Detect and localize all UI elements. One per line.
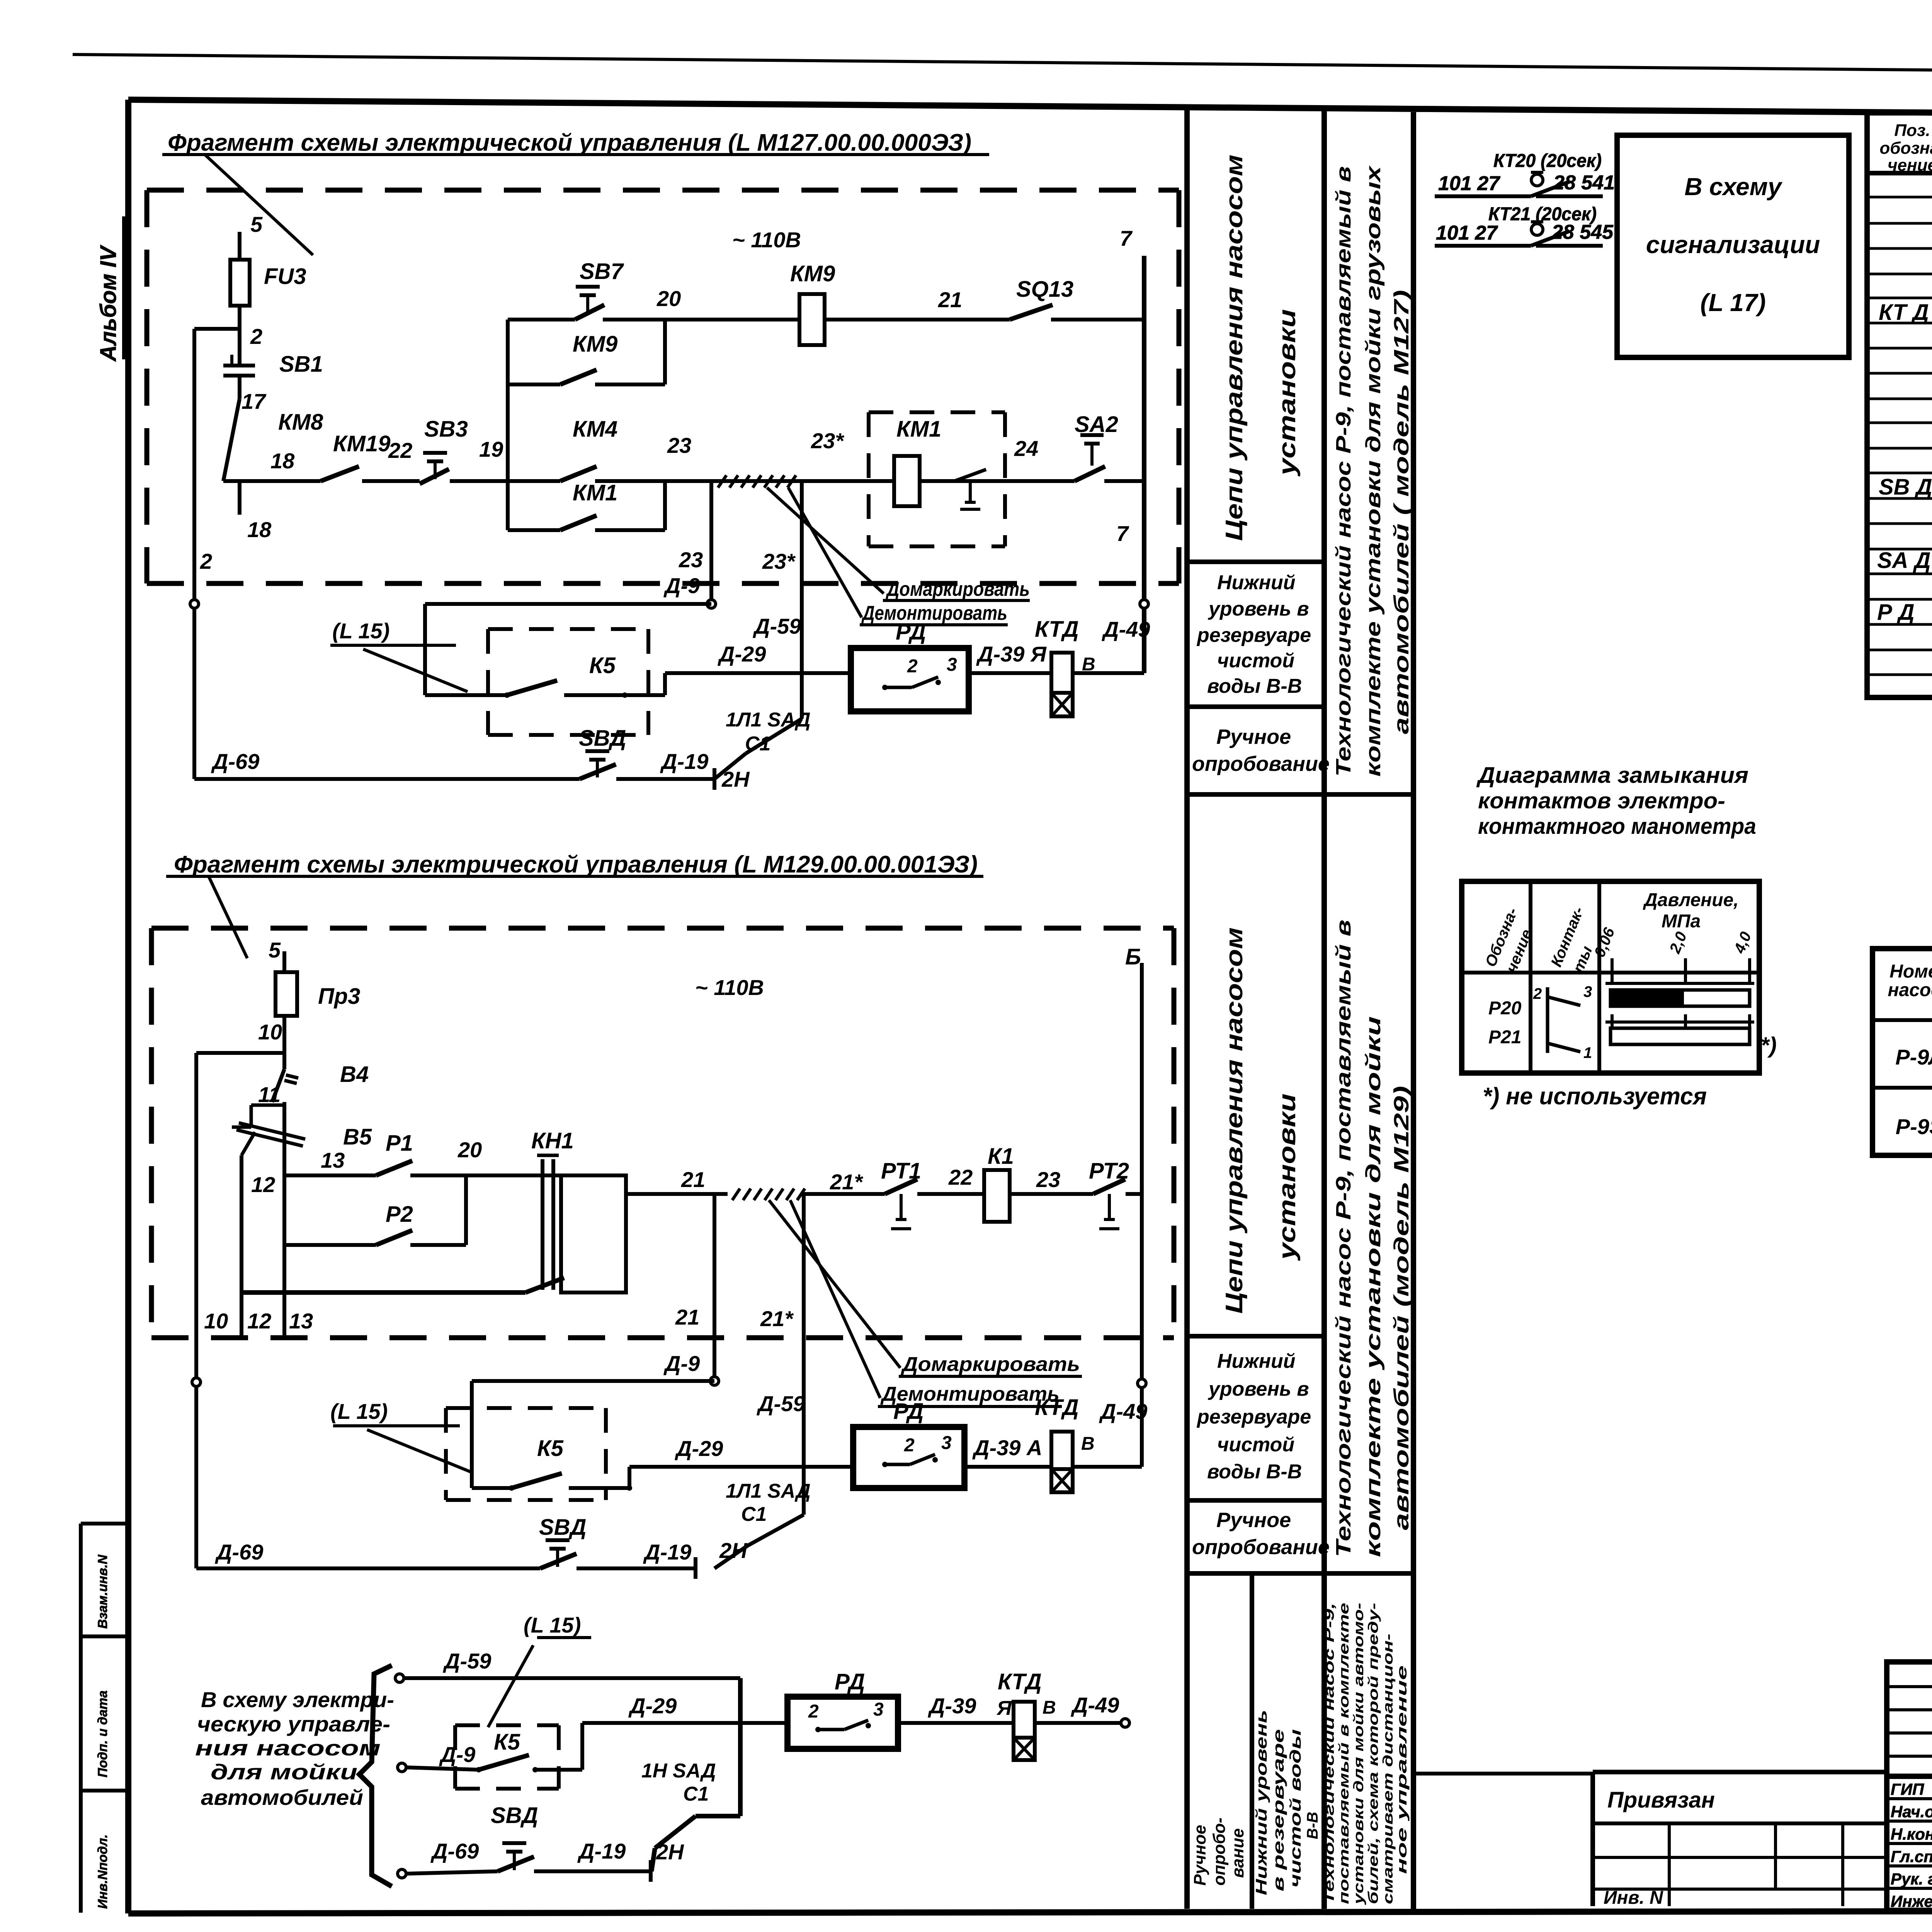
svg-text:2: 2 [907, 656, 918, 677]
svg-text:5: 5 [269, 938, 281, 962]
svg-text:~ 110В: ~ 110В [732, 228, 801, 252]
svg-text:28 545: 28 545 [1551, 221, 1614, 243]
svg-text:Ручное: Ручное [1190, 1825, 1209, 1886]
svg-text:КМ8: КМ8 [278, 410, 323, 435]
svg-text:(L 17): (L 17) [1700, 289, 1766, 316]
svg-text:Д-9: Д-9 [663, 573, 700, 598]
svg-text:SQ13: SQ13 [1016, 277, 1073, 302]
svg-text:опробование: опробование [1192, 1536, 1330, 1559]
svg-text:РД: РД [835, 1669, 865, 1694]
svg-text:(L 15): (L 15) [330, 1399, 388, 1423]
svg-text:22: 22 [948, 1165, 973, 1189]
svg-text:С1: С1 [683, 1783, 709, 1805]
svg-text:С1: С1 [745, 733, 770, 755]
svg-text:Д-49: Д-49 [1071, 1693, 1119, 1717]
svg-text:Технологический насос Р-9,: Технологический насос Р-9, [1321, 1603, 1337, 1904]
svg-text:контактного манометра: контактного манометра [1478, 814, 1756, 839]
svg-text:Р-9Л: Р-9Л [1895, 1045, 1932, 1069]
svg-text:Д-59: Д-59 [443, 1649, 491, 1673]
svg-text:РТ2: РТ2 [1089, 1158, 1129, 1184]
svg-text:КМ4: КМ4 [573, 417, 617, 442]
svg-text:Пр3: Пр3 [318, 984, 360, 1009]
svg-text:КМ1: КМ1 [896, 417, 941, 442]
svg-text:Подп. и дата: Подп. и дата [95, 1690, 110, 1777]
svg-text:*): *) [1760, 1033, 1777, 1058]
svg-text:Д-39 А: Д-39 А [972, 1435, 1042, 1460]
svg-text:Фрагмент схемы электрической: Фрагмент схемы электрической управления … [168, 129, 971, 156]
svg-text:К1: К1 [988, 1144, 1014, 1169]
svg-text:7: 7 [1116, 521, 1129, 546]
svg-text:ГИП: ГИП [1891, 1780, 1924, 1798]
svg-text:К5: К5 [494, 1730, 520, 1755]
svg-text:Д-19: Д-19 [643, 1540, 691, 1564]
svg-text:автомобилей ( модель М127): автомобилей ( модель М127) [1390, 290, 1413, 734]
svg-text:для мойки: для мойки [211, 1760, 357, 1784]
svg-text:10: 10 [258, 1020, 282, 1044]
svg-text:101 27: 101 27 [1438, 172, 1500, 195]
svg-text:чистой воды: чистой воды [1287, 1729, 1304, 1888]
svg-text:РТ1: РТ1 [881, 1158, 921, 1184]
svg-text:Демонтировать: Демонтировать [861, 602, 1007, 624]
svg-text:К5: К5 [589, 653, 616, 678]
svg-text:Цепи управления насосом: Цепи управления насосом [1221, 155, 1248, 541]
svg-text:2: 2 [808, 1701, 819, 1722]
svg-text:2: 2 [904, 1435, 915, 1456]
svg-text:13: 13 [289, 1309, 313, 1333]
svg-text:установки для мойки автомо-: установки для мойки автомо- [1350, 1603, 1366, 1905]
svg-text:20: 20 [457, 1138, 482, 1162]
svg-text:КТ20 (20сек): КТ20 (20сек) [1493, 151, 1602, 171]
svg-text:SВ Д: SВ Д [1879, 474, 1932, 500]
svg-text:~ 110В: ~ 110В [695, 975, 764, 1000]
svg-text:Альбом IV: Альбом IV [96, 245, 121, 362]
svg-text:Нижний: Нижний [1217, 571, 1296, 594]
svg-text:101 27: 101 27 [1436, 222, 1498, 244]
svg-text:чистой: чистой [1217, 1434, 1294, 1456]
svg-text:установки: установки [1274, 1094, 1301, 1261]
svg-text:18: 18 [247, 517, 272, 542]
svg-text:3: 3 [941, 1433, 952, 1453]
svg-text:опробование: опробование [1192, 752, 1330, 776]
svg-text:SА Д: SА Д [1877, 548, 1931, 573]
svg-text:17: 17 [241, 389, 267, 413]
svg-text:Ручное: Ручное [1216, 725, 1291, 748]
svg-text:В схему: В схему [1684, 173, 1783, 201]
svg-text:Рук. гр.: Рук. гр. [1891, 1870, 1932, 1888]
svg-text:Давление,: Давление, [1643, 890, 1739, 910]
svg-text:*) не используется: *) не используется [1483, 1083, 1707, 1110]
svg-text:комплекте установки для: комплекте установки для мойки [1362, 1016, 1385, 1557]
svg-text:13: 13 [321, 1148, 345, 1172]
svg-text:КМ19: КМ19 [333, 431, 390, 456]
svg-text:Фрагмент схемы электрическо: Фрагмент схемы электрической управления … [174, 851, 978, 878]
svg-text:Технологический насос Р-9,: Технологический насос Р-9, поставляемый … [1332, 166, 1355, 777]
svg-text:КТД: КТД [1035, 1395, 1079, 1420]
svg-text:Поз.: Поз. [1894, 121, 1930, 140]
svg-text:КТД: КТД [1035, 617, 1079, 642]
svg-text:обозна-: обозна- [1879, 139, 1932, 158]
svg-text:чистой: чистой [1217, 650, 1294, 672]
svg-text:Домаркировать: Домаркировать [901, 1353, 1080, 1376]
svg-text:насоса: насоса [1888, 980, 1932, 1000]
svg-text:Д-29: Д-29 [675, 1436, 723, 1461]
svg-text:1Н SАД: 1Н SАД [641, 1760, 716, 1782]
svg-text:Р Д: Р Д [1877, 600, 1915, 625]
svg-text:Б: Б [1125, 944, 1141, 969]
svg-text:Р2: Р2 [386, 1202, 413, 1227]
svg-text:2Н: 2Н [721, 767, 750, 791]
svg-text:24: 24 [1014, 436, 1038, 461]
svg-text:3: 3 [1583, 983, 1592, 1000]
svg-text:(L 15): (L 15) [332, 619, 389, 643]
svg-text:В схему электри-: В схему электри- [201, 1687, 394, 1712]
svg-text:Ручное: Ручное [1216, 1509, 1291, 1532]
svg-text:Д-69: Д-69 [430, 1839, 479, 1863]
svg-text:SВД: SВД [491, 1803, 538, 1828]
svg-text:23: 23 [1036, 1167, 1060, 1192]
svg-text:Д-49: Д-49 [1102, 617, 1150, 641]
svg-text:Р20: Р20 [1488, 998, 1522, 1019]
svg-text:FU3: FU3 [264, 264, 306, 289]
svg-text:Я: Я [996, 1697, 1012, 1719]
svg-text:вание: вание [1228, 1828, 1247, 1878]
svg-text:комплекте установки для м: комплекте установки для мойки грузовых [1362, 165, 1385, 777]
svg-text:Р1: Р1 [386, 1131, 413, 1156]
svg-text:Инженер: Инженер [1891, 1892, 1932, 1910]
svg-text:РД: РД [893, 1399, 923, 1424]
svg-text:1Л1 SАД: 1Л1 SАД [726, 709, 811, 731]
svg-text:Р-9S: Р-9S [1896, 1114, 1932, 1139]
svg-text:Д-39: Д-39 [928, 1694, 976, 1718]
svg-text:МПа: МПа [1662, 911, 1701, 932]
svg-text:ное управление: ное управление [1394, 1665, 1410, 1874]
svg-text:КТ Д: КТ Д [1879, 300, 1929, 325]
svg-text:С1: С1 [741, 1503, 767, 1526]
svg-text:2Н: 2Н [656, 1840, 684, 1864]
svg-text:18: 18 [270, 449, 295, 473]
svg-text:20: 20 [656, 286, 681, 311]
svg-text:Диаграмма замыкания: Диаграмма замыкания [1476, 763, 1748, 788]
svg-text:уровень в: уровень в [1207, 598, 1309, 620]
svg-text:КТД: КТД [998, 1669, 1042, 1694]
svg-text:опробо-: опробо- [1210, 1818, 1229, 1886]
svg-text:В: В [1043, 1697, 1056, 1718]
svg-text:21: 21 [938, 287, 962, 312]
svg-text:23*: 23* [762, 549, 796, 573]
svg-text:контактов электро-: контактов электро- [1478, 788, 1725, 813]
svg-text:Домаркировать: Домаркировать [886, 578, 1030, 600]
svg-text:21*: 21* [760, 1306, 794, 1331]
svg-text:SВД: SВД [579, 726, 626, 751]
svg-text:SВД: SВД [539, 1515, 586, 1540]
svg-text:28 541: 28 541 [1553, 172, 1615, 194]
svg-text:12: 12 [247, 1309, 271, 1333]
svg-text:Технологический насос Р-9,: Технологический насос Р-9, поставляемый … [1332, 920, 1355, 1557]
svg-text:ния насосом: ния насосом [195, 1736, 381, 1760]
svg-text:Д-69: Д-69 [211, 749, 259, 774]
svg-text:21: 21 [681, 1167, 705, 1192]
svg-text:Д-49: Д-49 [1099, 1399, 1147, 1423]
svg-text:резервуаре: резервуаре [1196, 1406, 1311, 1428]
svg-text:резервуаре: резервуаре [1196, 624, 1311, 646]
svg-text:Д-29: Д-29 [628, 1694, 677, 1718]
svg-text:2: 2 [250, 324, 262, 349]
svg-text:В5: В5 [343, 1124, 372, 1150]
svg-text:уровень в: уровень в [1207, 1378, 1309, 1400]
svg-text:КМ9: КМ9 [790, 261, 835, 286]
svg-text:КН1: КН1 [531, 1128, 574, 1153]
svg-text:SВ1: SВ1 [279, 352, 323, 377]
svg-text:сигнализации: сигнализации [1646, 231, 1820, 259]
svg-text:Привязан: Привязан [1607, 1787, 1715, 1813]
svg-text:В: В [1082, 654, 1095, 675]
svg-text:Н.контр.: Н.контр. [1891, 1825, 1932, 1843]
svg-text:В-В: В-В [1304, 1812, 1321, 1839]
svg-text:Д-29: Д-29 [718, 642, 766, 666]
svg-text:воды В-В: воды В-В [1207, 1461, 1302, 1483]
svg-text:2: 2 [200, 549, 212, 573]
svg-text:Нач.отд.: Нач.отд. [1891, 1803, 1932, 1821]
svg-text:7: 7 [1120, 226, 1133, 250]
svg-text:3: 3 [873, 1699, 884, 1720]
svg-text:1: 1 [1583, 1044, 1592, 1061]
svg-text:Д-19: Д-19 [660, 749, 708, 774]
svg-text:21: 21 [675, 1305, 699, 1329]
svg-text:Нижний: Нижний [1217, 1350, 1296, 1372]
svg-text:10: 10 [204, 1309, 228, 1333]
svg-text:Д-19: Д-19 [577, 1839, 626, 1863]
svg-text:Цепи управления насосом: Цепи управления насосом [1221, 927, 1248, 1314]
svg-text:РД: РД [896, 619, 926, 645]
svg-text:12: 12 [251, 1172, 275, 1197]
svg-text:23: 23 [679, 548, 703, 572]
svg-text:Инв. N: Инв. N [1604, 1888, 1663, 1908]
svg-text:2: 2 [1533, 985, 1542, 1002]
svg-text:В: В [1081, 1434, 1095, 1454]
svg-text:билей, схема которой преду-: билей, схема которой преду- [1365, 1603, 1381, 1904]
svg-text:КМ1: КМ1 [573, 480, 617, 505]
svg-text:Гл.спец: Гл.спец [1891, 1847, 1932, 1866]
svg-text:SА2: SА2 [1075, 412, 1118, 437]
svg-text:ческую управле-: ческую управле- [197, 1712, 390, 1736]
svg-text:1Л1 SАД: 1Л1 SАД [726, 1480, 811, 1502]
svg-text:Номер: Номер [1889, 961, 1932, 982]
svg-text:22: 22 [388, 438, 412, 463]
svg-text:Д-9: Д-9 [439, 1742, 475, 1767]
svg-text:21*: 21* [830, 1170, 863, 1194]
svg-text:19: 19 [479, 437, 503, 461]
svg-text:автомобилей (модель М129): автомобилей (модель М129) [1390, 1086, 1413, 1530]
svg-text:SВ3: SВ3 [424, 417, 468, 442]
svg-text:2Н: 2Н [719, 1538, 748, 1563]
svg-text:Инв.Nподл.: Инв.Nподл. [95, 1834, 110, 1909]
svg-text:КМ9: КМ9 [573, 332, 617, 357]
svg-text:Д-59: Д-59 [757, 1391, 805, 1416]
svg-text:Д-59: Д-59 [753, 614, 801, 638]
svg-text:установки: установки [1274, 309, 1301, 477]
svg-text:23: 23 [667, 433, 691, 457]
svg-text:автомобилей: автомобилей [201, 1785, 363, 1810]
svg-text:3: 3 [947, 655, 957, 675]
svg-text:чение: чение [1888, 156, 1932, 175]
svg-text:Взам.инв.N: Взам.инв.N [95, 1554, 110, 1629]
svg-text:5: 5 [250, 212, 263, 236]
svg-text:11: 11 [258, 1082, 281, 1107]
svg-text:Д-9: Д-9 [663, 1351, 700, 1376]
svg-text:К5: К5 [537, 1436, 564, 1461]
svg-text:воды В-В: воды В-В [1207, 675, 1302, 697]
svg-text:сматривает дистанцион-: сматривает дистанцион- [1380, 1634, 1396, 1904]
svg-text:SВ7: SВ7 [580, 259, 624, 284]
svg-text:в резервуаре: в резервуаре [1270, 1729, 1287, 1891]
svg-text:В4: В4 [340, 1062, 369, 1087]
svg-text:поставляемый в комплекте: поставляемый в комплекте [1336, 1603, 1352, 1904]
svg-text:Д-39 Я: Д-39 Я [976, 642, 1047, 666]
svg-text:(L 15): (L 15) [524, 1613, 581, 1637]
svg-text:Р21: Р21 [1488, 1027, 1521, 1048]
svg-text:23*: 23* [811, 429, 844, 453]
svg-text:Д-69: Д-69 [215, 1540, 263, 1564]
svg-text:Нижний уровень: Нижний уровень [1253, 1710, 1270, 1895]
